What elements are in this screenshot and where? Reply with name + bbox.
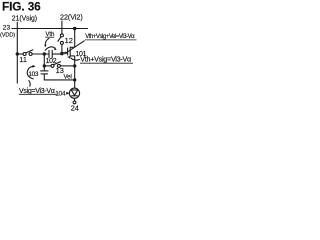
terminal 24 circle	[73, 101, 76, 104]
wire gate node vertical (switch 12 to sampling row)	[61, 44, 63, 54]
svg-text:24: 24	[71, 104, 79, 113]
capacitor C102 plates	[48, 50, 50, 58]
EL element 104 circle	[69, 88, 79, 98]
arrow leader from equation 2 to source node	[71, 58, 80, 60]
node Vsig/switch11 junction dot	[16, 52, 19, 55]
wire switch 11 row left segment	[17, 53, 23, 55]
EL element 104 cathode bar	[71, 95, 78, 97]
svg-text:FIG. 36: FIG. 36	[2, 0, 41, 13]
svg-text:104: 104	[55, 91, 66, 98]
transistor Q101 gate bar	[67, 48, 69, 56]
capacitor C103 plates	[40, 70, 48, 72]
arrow leader from equation 3 upward	[29, 80, 31, 86]
svg-text:12: 12	[65, 36, 73, 45]
arrow label leader 104	[66, 92, 69, 95]
svg-text:23: 23	[3, 25, 11, 32]
node junction dot at cap103 branch	[43, 52, 46, 55]
wire Vsig vertical line (from terminal 21 down past switch 11 row)	[16, 22, 18, 84]
wire Vi2 vertical (from terminal 22 down to switch 12)	[61, 21, 63, 34]
svg-text:Vsig=Vi3-Vα: Vsig=Vi3-Vα	[19, 88, 55, 95]
arrow arc around label 103	[27, 66, 33, 79]
svg-text:Vth+Vsig+Vel=Vi3-Vα: Vth+Vsig+Vel=Vi3-Vα	[85, 34, 135, 40]
transistor Q101 drain lead	[70, 46, 75, 48]
svg-text:103: 103	[28, 71, 39, 78]
transistor Q101 channel bar	[69, 47, 71, 57]
EL element 104 diode triangle	[71, 90, 78, 95]
wire switch 13 row left segment	[44, 65, 51, 67]
switch 12	[60, 34, 63, 37]
wire source vertical down to EL	[74, 56, 76, 88]
wire cap103 bottom lead	[44, 74, 74, 80]
svg-text:Vth+Vsig=Vi3-Vα: Vth+Vsig=Vi3-Vα	[80, 54, 131, 63]
svg-text:21(Vsig): 21(Vsig)	[12, 15, 37, 22]
wire cap103 branch vertical	[43, 54, 45, 71]
wire switch 11 to capacitor 102	[32, 53, 49, 55]
node gate junction dot	[60, 52, 64, 56]
wire EL bottom lead	[74, 98, 76, 101]
wire gate lead	[62, 52, 68, 54]
svg-text:102: 102	[46, 58, 57, 65]
svg-text:22(Vi2): 22(Vi2)	[60, 13, 83, 22]
wire switch 13 to source node	[60, 65, 74, 67]
wire drain vertical to VDD rail	[74, 29, 76, 48]
switch 11	[23, 53, 26, 56]
node source/switch13 junction dot	[73, 64, 76, 67]
wire capacitor 102 to gate node	[52, 53, 62, 55]
svg-text:11: 11	[19, 55, 27, 64]
transistor Q101 source lead	[70, 55, 75, 57]
arrow arc over capacitor 102	[45, 47, 56, 51]
arrow leader from Vth label to capacitor 102	[45, 38, 49, 45]
wire VDD rail horizontal	[12, 28, 89, 30]
node source/cap103 junction dot	[73, 78, 76, 81]
node switch13 row junction dot	[43, 64, 46, 67]
node VDD/drain junction dot	[73, 27, 77, 31]
arrow leader from equation 1 to gate node	[66, 41, 85, 54]
svg-text:(VDD): (VDD)	[0, 32, 15, 38]
switch 13	[51, 64, 54, 67]
